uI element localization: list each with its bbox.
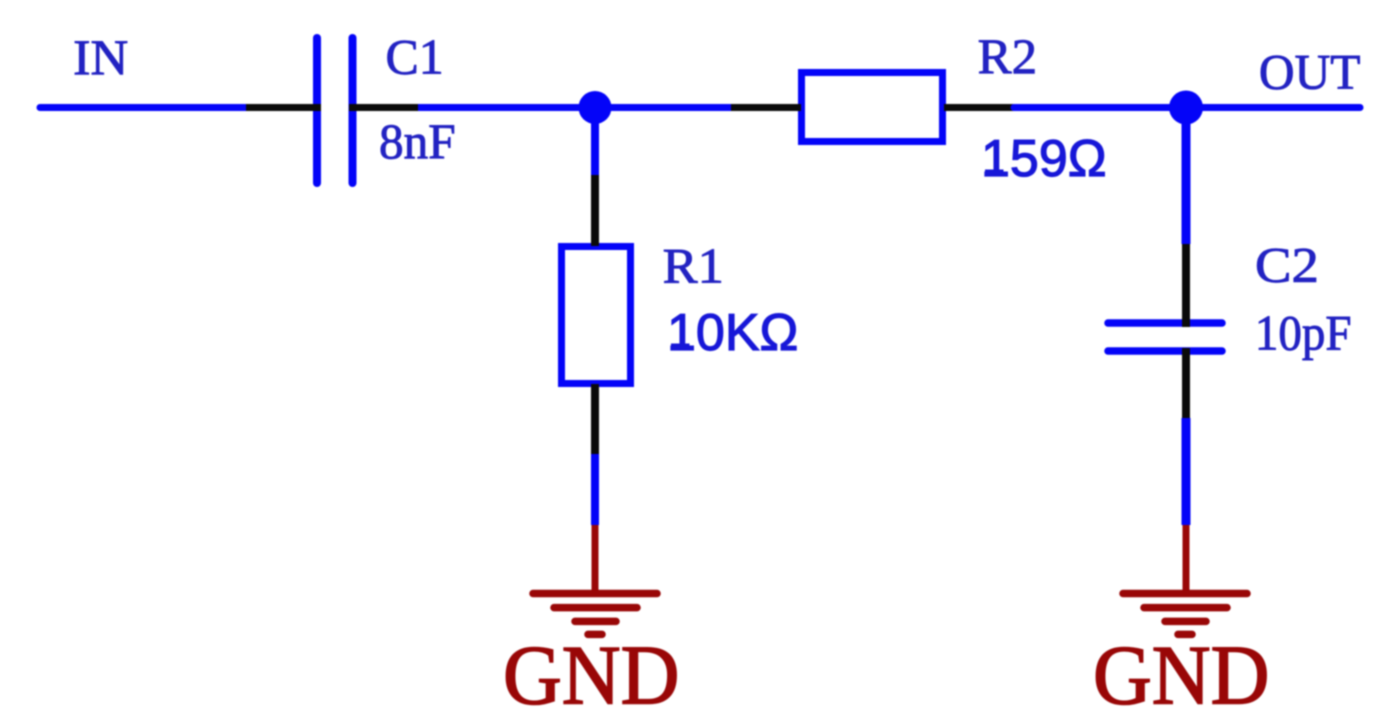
capacitor C2 pin 1 bbox=[1182, 244, 1190, 327]
capacitor C1 pin 2 bbox=[349, 104, 418, 111]
ground GND1 lead bbox=[592, 525, 599, 593]
junction node A bbox=[579, 91, 612, 124]
wire node A to R2 bbox=[595, 104, 731, 111]
svg-text:R1: R1 bbox=[663, 237, 724, 293]
resistor R1 pin 2 bbox=[591, 384, 599, 454]
svg-text:C1: C1 bbox=[386, 29, 444, 85]
ground GND2 symbol bbox=[1123, 594, 1247, 635]
wire node B down bbox=[1182, 108, 1191, 245]
svg-text:OUT: OUT bbox=[1259, 43, 1361, 99]
svg-text:159Ω: 159Ω bbox=[981, 130, 1107, 188]
svg-text:GND: GND bbox=[503, 629, 679, 723]
wire C1 to node A bbox=[418, 104, 595, 111]
resistor R1 body bbox=[562, 247, 631, 384]
resistor R2 pin 2 bbox=[944, 104, 1014, 111]
wire C2 to GND2 bbox=[1182, 418, 1191, 525]
junction node B bbox=[1169, 91, 1203, 125]
capacitor C2 pin 2 bbox=[1182, 348, 1190, 418]
resistor R2 body bbox=[802, 73, 943, 142]
wire R1 to GND1 bbox=[591, 454, 599, 525]
capacitor C1 pin 1 bbox=[246, 104, 321, 111]
svg-text:8nF: 8nF bbox=[379, 113, 456, 169]
resistor R1 pin 1 bbox=[591, 175, 599, 246]
resistor R1 value label 10K&#937; bbox=[667, 304, 798, 362]
svg-text:10pF: 10pF bbox=[1255, 304, 1352, 360]
resistor R2 pin 1 bbox=[731, 104, 801, 111]
capacitor C2 bbox=[1108, 323, 1222, 351]
wire R2 to OUT bbox=[1014, 104, 1360, 111]
ground GND2 lead bbox=[1183, 525, 1190, 593]
svg-text:10KΩ: 10KΩ bbox=[667, 304, 798, 362]
wire IN lead bbox=[40, 104, 246, 111]
resistor R2 value label 159&#937; bbox=[981, 130, 1107, 188]
svg-text:IN: IN bbox=[73, 29, 128, 85]
svg-text:R2: R2 bbox=[978, 28, 1038, 84]
ground GND1 symbol bbox=[533, 594, 657, 635]
svg-text:C2: C2 bbox=[1255, 236, 1319, 292]
wire node A down bbox=[591, 108, 599, 176]
capacitor C1 bbox=[317, 38, 353, 183]
svg-text:GND: GND bbox=[1093, 629, 1269, 723]
